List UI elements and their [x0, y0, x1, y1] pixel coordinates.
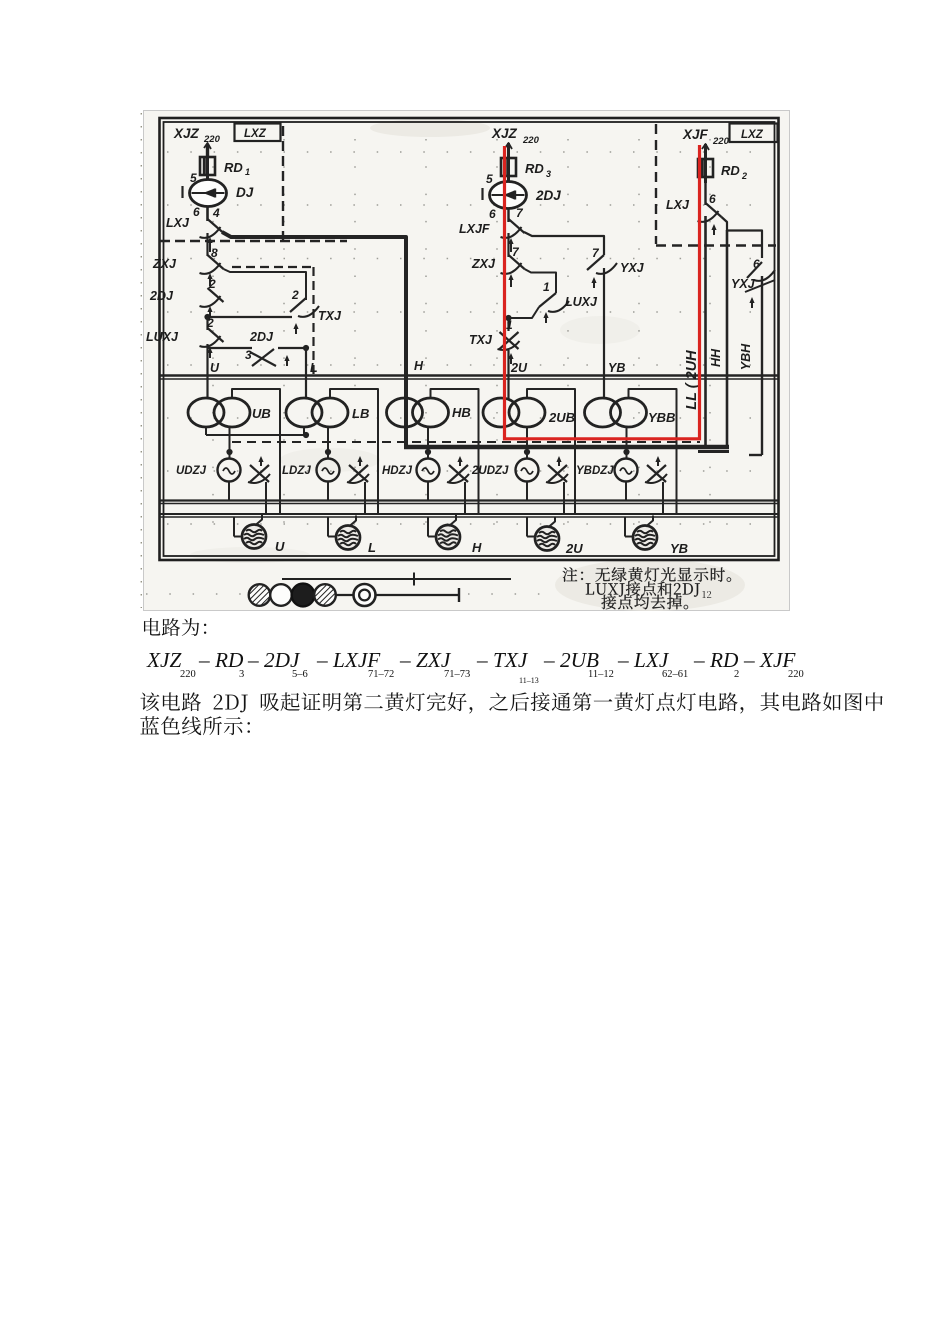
node XJZ220 (middle feed): [491, 126, 540, 146]
lamp 2U: [535, 517, 583, 557]
wire: 2UDZJ to lamp: [527, 482, 564, 515]
contact ZXJ (left): [152, 255, 224, 286]
wire: XJF drop: [702, 144, 709, 160]
transformer YBB: [585, 398, 676, 427]
wire: ZXJ out to TXJ branch: [224, 269, 307, 300]
wire: XJZ drop (middle): [505, 143, 512, 159]
transformer 2UB: [483, 398, 575, 427]
dashed box around DJ group: [160, 126, 347, 241]
relay DJ: [183, 175, 254, 207]
svg-text:71–73: 71–73: [444, 669, 470, 680]
scanned figure background: [144, 111, 790, 611]
wire: YBDZJ to lamp: [626, 482, 663, 515]
fuse RD2: [698, 156, 747, 183]
lamp box top line: [160, 514, 778, 517]
signal lamp 3 (solid): [292, 584, 315, 607]
wire: ZXJ out to LUXJ branch: [525, 269, 557, 293]
svg-text:– TXJ: – TXJ: [476, 648, 529, 672]
svg-text:– RD: – RD: [198, 648, 244, 672]
lamp YB: [633, 516, 688, 557]
contact TXJ (left): [290, 298, 342, 334]
transformer LB: [286, 398, 369, 427]
formula line: [146, 648, 804, 685]
wire: TXJ back to junction: [208, 316, 293, 318]
section divider line: [160, 376, 778, 380]
wire: HH column drop: [726, 230, 729, 449]
signal head sketch: [282, 573, 511, 586]
lamp U: [242, 515, 285, 555]
relay HDZJ: [382, 459, 440, 482]
wire: junction down to TXJ: [507, 316, 509, 331]
scan left edge dotted: [140, 113, 142, 608]
dashed box (right group): [656, 124, 776, 246]
contact 2DJ (left): [149, 288, 224, 317]
transformer HB: [387, 398, 471, 427]
wire: transformer brackets: [232, 389, 677, 514]
contact LXJ (left): [166, 216, 224, 252]
lamp box upper line: [160, 501, 778, 504]
contact HDZJ output: [447, 456, 469, 483]
contact 2DJ-3: [245, 330, 290, 366]
wire: junction down: [206, 317, 208, 330]
junction (middle): [505, 315, 511, 321]
wire: HDZJ to lamp: [428, 482, 465, 515]
wire: LXJF out to YB column: [524, 232, 604, 255]
wire: DJ to LXJ contact: [206, 206, 209, 221]
wire: U column drop: [206, 344, 208, 399]
svg-text:11–12: 11–12: [588, 669, 614, 680]
svg-text:11–13: 11–13: [519, 676, 539, 685]
transformer UB: [188, 398, 271, 427]
wire to ring lamp: [336, 594, 353, 596]
contact LXJF: [459, 219, 525, 252]
relay LDZJ: [282, 459, 340, 482]
wire: LXJ branch to YBH column: [722, 217, 763, 258]
contact 2UDZJ output: [546, 456, 568, 483]
contact YBDZJ output: [645, 456, 667, 483]
contact YXJ (middle): [587, 255, 645, 288]
note text line 2: [586, 582, 711, 598]
node XJF220 (right feed): [682, 127, 730, 147]
wire: L column drop: [305, 348, 307, 399]
contact YXJ (right, crossed): [731, 262, 775, 308]
svg-text:5–6: 5–6: [292, 669, 308, 680]
box LXZ (right): [730, 124, 778, 143]
outer frame: [160, 118, 779, 560]
red highlighted circuit path: [505, 145, 700, 439]
wire: drop to 2U transformer: [507, 350, 509, 399]
svg-text:– RD: – RD: [693, 648, 739, 672]
wire: main drop (right): [704, 216, 707, 449]
relay 2DJ: [483, 176, 562, 209]
dashed line below transformers: [232, 441, 700, 443]
junction: [204, 314, 210, 320]
wire: LUXJ to L column with 2DJ-3 contact: [208, 347, 307, 349]
note text line 1: [563, 567, 731, 582]
contact TXJ (middle, crossed): [469, 332, 520, 364]
signal lamp 1 (hatched): [249, 584, 271, 606]
paragraph line 2: [140, 716, 250, 735]
wire: YB column drop: [603, 268, 605, 399]
fuse RD1: [200, 154, 250, 181]
relay UDZJ: [176, 459, 241, 482]
junction at L column: [303, 345, 309, 351]
wire: LDZJ to lamp: [328, 482, 365, 515]
wire: XJZ drop (left): [204, 143, 211, 158]
signal head mast: [376, 588, 459, 602]
signal lamp 4 (hatched): [314, 584, 336, 606]
grid dots: [146, 139, 769, 594]
caption: circuit is: [144, 618, 206, 636]
contact UDZJ output: [248, 456, 270, 483]
svg-text:3: 3: [239, 669, 244, 680]
wire: U-L link below transformers: [206, 427, 309, 438]
svg-text:71–72: 71–72: [368, 669, 394, 680]
wire: RD2 to LXJ: [704, 177, 706, 205]
scan mottling: [190, 119, 745, 611]
dashed box lamp-group (left): [232, 267, 314, 374]
box LXZ (left): [235, 124, 281, 142]
svg-text:220: 220: [788, 669, 804, 680]
paragraph line 1: [140, 692, 882, 713]
svg-text:62–61: 62–61: [662, 669, 688, 680]
wire: UDZJ to lamp: [229, 482, 266, 515]
contact LXJ (right): [666, 198, 722, 235]
note text line 3: [601, 595, 688, 610]
relay YBDZJ: [576, 459, 638, 482]
contact ZXJ (middle): [471, 255, 525, 287]
node XJZ220 (left feed): [173, 126, 221, 145]
svg-text:XJZ: XJZ: [146, 648, 182, 672]
wire: YBH column drop: [749, 276, 762, 455]
wire: main drop to ZXJ (middle): [507, 233, 509, 257]
wire: main drop to ZXJ: [206, 233, 208, 256]
lamp H: [436, 515, 482, 555]
contact LUXJ (middle): [539, 293, 598, 323]
svg-text:2: 2: [734, 669, 739, 680]
contact LUXJ (left): [146, 328, 224, 358]
svg-text:220: 220: [180, 669, 196, 680]
signal lamp 2 (open): [270, 584, 292, 606]
relay 2UDZJ: [471, 459, 539, 482]
wire: thick run DJ output to H column: [222, 232, 406, 446]
contact LDZJ output: [347, 456, 369, 483]
wire: thick bottom bus: [404, 447, 729, 452]
wire: secondary drops to DZJ relays: [226, 427, 629, 458]
signal ring lamp: [354, 584, 376, 606]
lamp L: [336, 516, 376, 556]
wire: LUXJ branch rejoin: [509, 307, 540, 318]
wire: 2DJ to LXJF: [507, 208, 509, 222]
wire: lamp feeders: [234, 517, 634, 537]
fuse RD3: [501, 155, 551, 182]
